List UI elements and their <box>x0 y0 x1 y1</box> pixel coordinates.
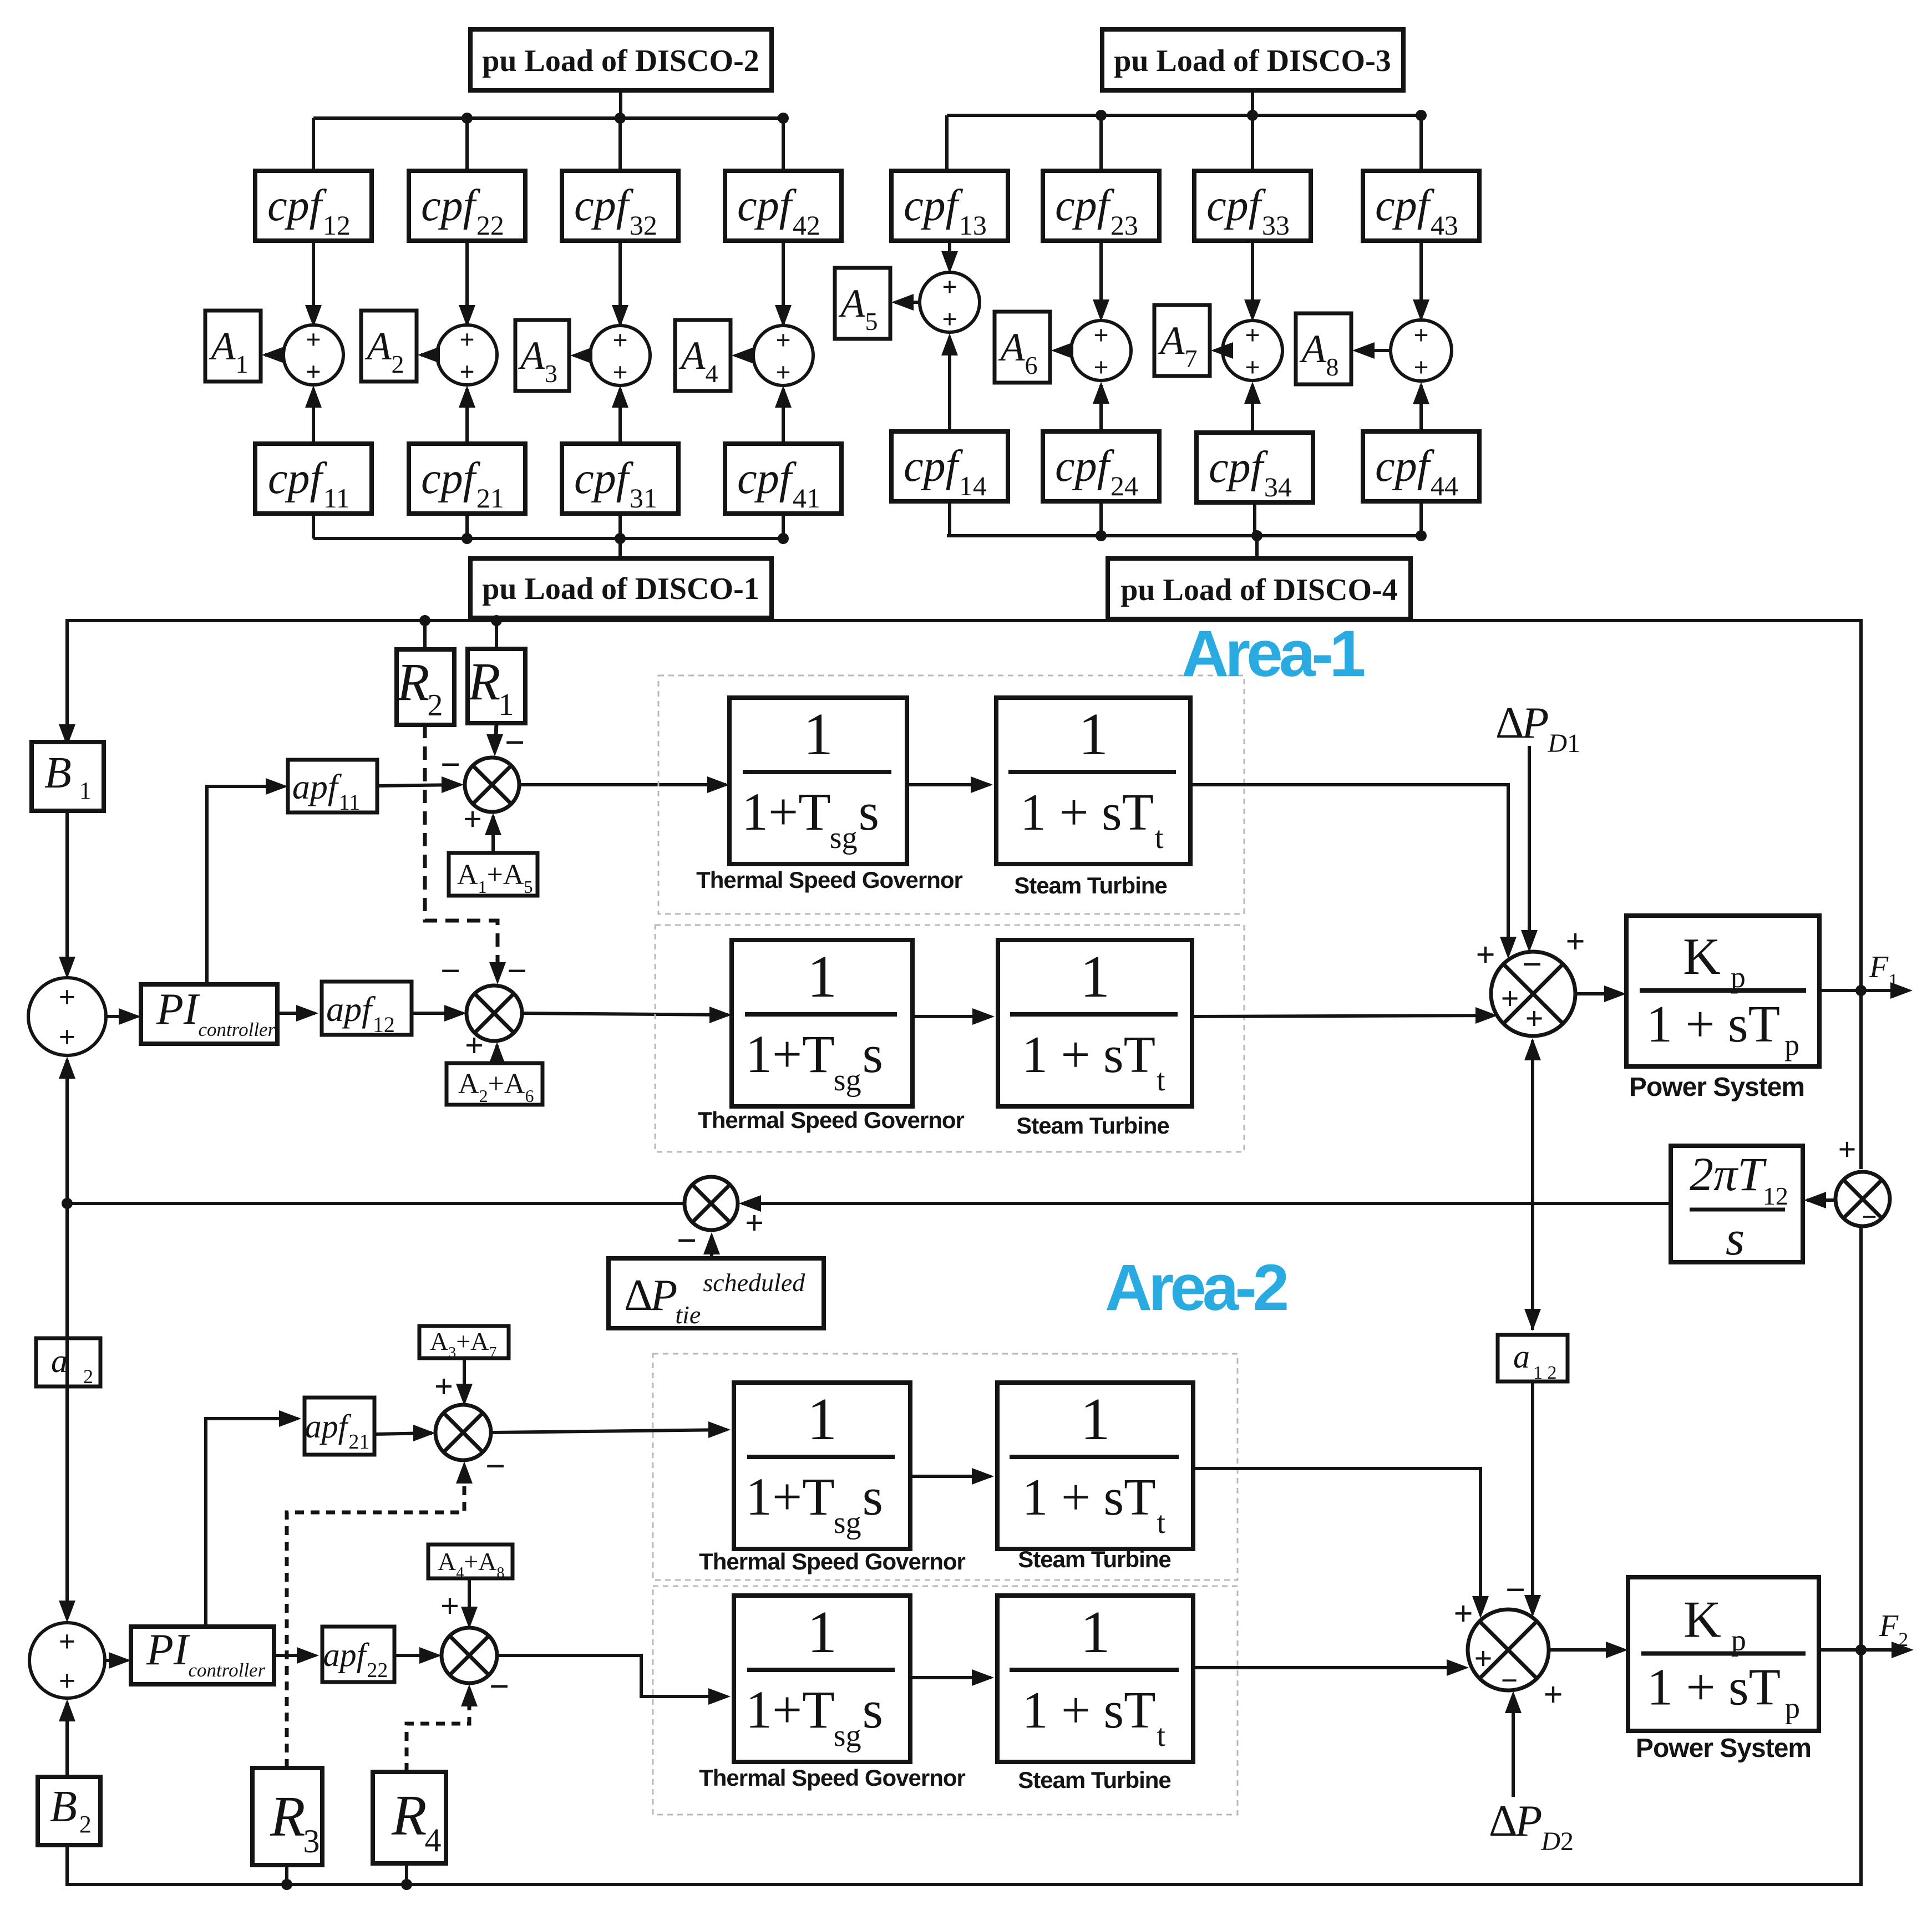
junction dot right top bus col4 <box>1416 110 1427 121</box>
svg-text:+: + <box>440 1588 459 1624</box>
svg-text:+: + <box>459 357 474 387</box>
wire cpf24 to summer A6 <box>1099 385 1103 431</box>
summing junction for A7 <box>1223 321 1282 380</box>
svg-text:−: − <box>440 951 460 990</box>
block cpf32 <box>562 171 678 241</box>
wire A2+A6 to mixer 2 <box>495 1045 499 1063</box>
junction dot R2 tap on top border <box>419 615 430 626</box>
block A4 <box>675 320 731 391</box>
wire tie feedback to ACE summer 1 <box>65 1060 69 1203</box>
wire R3 stub to bottom border <box>285 1865 288 1884</box>
mixer junction governor 2 input <box>466 985 522 1041</box>
wire cpf32 to summer A3 <box>618 241 622 324</box>
wire cpf31 to bottom bus <box>618 514 622 539</box>
summing junction for A3 <box>590 326 650 385</box>
wire mixer 1 to governor 1 <box>519 783 726 786</box>
svg-text:1: 1 <box>803 702 833 768</box>
wire dPD1 to power summer 1 <box>1528 746 1531 948</box>
block steam turbine 3 <box>997 1383 1193 1549</box>
svg-text:−: − <box>505 723 525 762</box>
svg-text:1: 1 <box>1078 702 1108 768</box>
block R2 <box>397 649 454 725</box>
block cpf24 <box>1043 431 1159 501</box>
svg-text:−: − <box>1501 1664 1518 1697</box>
wire top bus to cpf32 <box>618 118 622 171</box>
summing junction ACE area-2 <box>29 1623 105 1698</box>
junction dot R1 tap on top border <box>491 615 502 626</box>
wire ACE summer 2 to PI controller 2 <box>105 1659 128 1662</box>
wire power summer 1 to power system 1 <box>1575 992 1622 995</box>
svg-text:pu Load of DISCO-4: pu Load of DISCO-4 <box>1120 573 1397 607</box>
wire cpf21 to summer A2 <box>465 389 469 444</box>
junction dot F1 <box>1855 985 1867 996</box>
svg-text:+: + <box>745 1205 764 1241</box>
block pu Load of DISCO-2 <box>470 29 772 90</box>
svg-text:+: + <box>1245 321 1260 350</box>
wire R2 droop dashed <box>425 725 498 978</box>
svg-text:Steam Turbine: Steam Turbine <box>1016 1112 1169 1139</box>
wire PI 2 branch to apf21 <box>206 1419 298 1627</box>
block A3 <box>515 320 569 391</box>
wire B2 to ACE summer 2 <box>65 1703 69 1777</box>
wire cpf31 to summer A3 <box>618 389 622 444</box>
wire summer to A4 <box>735 354 753 357</box>
svg-text:1: 1 <box>807 944 837 1010</box>
summing junction power system 2 input <box>1468 1609 1549 1690</box>
svg-text:1: 1 <box>1081 1599 1110 1665</box>
block power system 2 <box>1628 1577 1819 1731</box>
wire right DPM bottom bus <box>947 534 1421 537</box>
block PI controller area-1 <box>141 984 277 1044</box>
wire R4 stub to bottom border <box>405 1863 408 1884</box>
block tie line 2piT12/s <box>1671 1146 1803 1262</box>
wire mixer a2r1 to governor a2r1 <box>491 1430 727 1432</box>
svg-text:Thermal Speed Governor: Thermal Speed Governor <box>699 1548 965 1574</box>
wire summer to A6 <box>1054 349 1071 352</box>
block cpf13 <box>891 171 1008 241</box>
block power system 1 <box>1626 916 1819 1066</box>
wire top bus to cpf22 <box>465 118 469 171</box>
wire power system 2 to F2 <box>1819 1648 1909 1652</box>
block cpf21 <box>409 444 525 514</box>
wire cpf14 to summer A5 <box>948 337 951 431</box>
block a2 <box>36 1338 100 1386</box>
svg-text:1: 1 <box>1080 944 1110 1010</box>
svg-text:Thermal Speed Governor: Thermal Speed Governor <box>699 1765 965 1791</box>
block cpf41 <box>725 444 841 514</box>
wire tie summer to tie block <box>1807 1198 1835 1202</box>
wire cpf34 to bottom bus <box>1253 502 1256 536</box>
svg-text:+: + <box>1245 353 1260 382</box>
wire turbine a2r2 to power summer 2 <box>1193 1666 1464 1669</box>
wire cpf23 to summer A6 <box>1099 241 1103 317</box>
summing junction power system 1 input <box>1491 952 1575 1036</box>
block cpf22 <box>409 171 525 241</box>
svg-text:+: + <box>306 357 321 387</box>
block A2+A6 <box>447 1063 542 1105</box>
junction dot tie feedback left rail <box>62 1198 73 1209</box>
svg-text:−: − <box>677 1221 697 1260</box>
wire governor a2r1 to turbine a2r1 <box>910 1475 991 1478</box>
svg-text:+: + <box>1543 1676 1563 1714</box>
wire right DPM top bus <box>947 114 1421 117</box>
block cpf23 <box>1043 171 1159 241</box>
junction dot top bus col4 <box>778 113 789 124</box>
svg-text:+: + <box>1838 1131 1856 1167</box>
junction dot F2 <box>1855 1644 1867 1655</box>
wire summer to A1 <box>265 353 283 357</box>
wire tie mixer to left rail <box>67 1202 684 1205</box>
svg-text:+: + <box>59 1664 76 1698</box>
block cpf43 <box>1363 171 1479 241</box>
wire top bus to cpf13 <box>945 115 949 171</box>
svg-text:−: − <box>440 745 460 784</box>
wire left rail to a2 and ACE summer 2 <box>65 1203 69 1618</box>
svg-text:+: + <box>434 1368 453 1405</box>
svg-text:+: + <box>1500 981 1519 1017</box>
junction dot bottom bus col4 <box>778 533 789 544</box>
wire left DPM top bus <box>313 116 783 120</box>
mixer junction tie feedback <box>684 1177 738 1230</box>
svg-text:−: − <box>489 1667 509 1706</box>
summing junction for A4 <box>753 326 813 385</box>
wire cpf41 to summer A4 <box>782 389 785 444</box>
block dPtie scheduled <box>608 1258 824 1328</box>
svg-text:+: + <box>1093 321 1108 350</box>
block apf21 <box>305 1398 374 1455</box>
wire dPD2 to power summer 2 <box>1512 1695 1515 1797</box>
block PI controller area-2 <box>131 1627 274 1684</box>
block cpf34 <box>1196 433 1313 502</box>
svg-text:−: − <box>1522 944 1542 984</box>
summing junction for A5 <box>920 272 980 332</box>
svg-text:+: + <box>775 358 790 387</box>
block cpf33 <box>1194 171 1311 241</box>
junction dot right bottom bus col4 <box>1416 530 1427 541</box>
junction dot top bus col3 <box>615 113 626 124</box>
wire cpf12 to summer A1 <box>312 241 315 324</box>
svg-text:Steam Turbine: Steam Turbine <box>1018 1767 1171 1793</box>
svg-text:+: + <box>942 304 957 334</box>
wire cpf21 to bottom bus <box>465 514 469 539</box>
wire cpf14 to bottom bus <box>948 501 951 536</box>
wire PI 1 branch to apf11 <box>207 786 285 984</box>
group box area-2 unit 1 <box>653 1354 1238 1580</box>
wire summer to A7 <box>1214 349 1223 352</box>
wire apf21 to mixer a2r1 <box>374 1433 432 1434</box>
summing junction for A8 <box>1391 320 1452 381</box>
junction dot right top bus col3 <box>1247 110 1258 121</box>
block B2 <box>38 1777 100 1845</box>
wire R1 stub <box>495 621 498 649</box>
svg-text:+: + <box>59 1625 76 1658</box>
svg-text:+: + <box>1525 1000 1543 1037</box>
junction dot R3 tap <box>281 1879 292 1890</box>
block R3 <box>252 1768 322 1865</box>
block A1 <box>205 311 261 382</box>
block cpf14 <box>891 431 1008 501</box>
svg-text:pu Load of DISCO-2: pu Load of DISCO-2 <box>482 44 759 78</box>
wire cpf34 to summer A7 <box>1251 385 1254 431</box>
junction dot right bottom bus col2 <box>1096 530 1107 541</box>
block a12 <box>1498 1335 1568 1381</box>
wire top bus to cpf43 <box>1419 115 1423 171</box>
wire cpf33 to summer A7 <box>1251 241 1254 317</box>
svg-text:pu Load of DISCO-1: pu Load of DISCO-1 <box>482 572 759 606</box>
block B1 <box>32 742 104 811</box>
block steam turbine 4 <box>997 1596 1193 1762</box>
wire summer to A8 <box>1356 349 1391 352</box>
svg-text:−: − <box>507 951 527 990</box>
wire power system 1 to F1 <box>1819 989 1908 992</box>
svg-text:+: + <box>1453 1595 1473 1633</box>
wire cpf11 to bottom bus <box>312 514 315 539</box>
svg-text:Power System: Power System <box>1629 1073 1804 1102</box>
wire tie block output to tie mixer <box>742 1202 1671 1205</box>
wire governor a2r2 to turbine a2r2 <box>910 1676 991 1679</box>
svg-text:−: − <box>485 1446 505 1486</box>
wire R3 droop dashed <box>287 1466 464 1768</box>
svg-text:−: − <box>1505 1570 1525 1609</box>
svg-text:+: + <box>59 981 76 1014</box>
wire turbine row2 output to power summer 1 <box>1192 1015 1493 1017</box>
block A8 <box>1296 313 1351 384</box>
svg-text:pu Load of DISCO-3: pu Load of DISCO-3 <box>1114 44 1391 78</box>
wire DISCO-2 to top bus <box>619 90 622 118</box>
wire cpf24 to bottom bus <box>1099 501 1103 536</box>
wire F1 to tie summer <box>1859 990 1863 1169</box>
svg-text:s: s <box>1726 1212 1745 1266</box>
svg-text:+: + <box>1413 321 1428 350</box>
wire apf12 to mixer 2 <box>412 1012 463 1015</box>
wire summer to A3 <box>574 354 590 357</box>
wire cpf43 to summer A8 <box>1419 241 1423 317</box>
block A2 <box>361 311 417 382</box>
block cpf31 <box>562 444 678 514</box>
wire DISCO-3 to top bus <box>1251 90 1254 115</box>
svg-text:+: + <box>459 325 474 354</box>
svg-text:1 + sTp: 1 + sTp <box>1646 995 1799 1061</box>
block pu Load of DISCO-3 <box>1102 29 1403 90</box>
svg-text:Steam Turbine: Steam Turbine <box>1018 1546 1171 1572</box>
junction dot bottom bus col3 <box>615 533 626 544</box>
junction dot top bus col2 <box>462 113 473 124</box>
junction dot R4 tap <box>401 1879 412 1890</box>
block pu Load of DISCO-1 <box>470 558 772 618</box>
wire cpf13 to summer A5 <box>948 241 951 269</box>
svg-text:Thermal Speed Governor: Thermal Speed Governor <box>696 867 962 893</box>
summing junction for A1 <box>283 325 343 385</box>
wire summer to A5 <box>895 301 920 304</box>
group box area-1 unit 1 <box>658 675 1244 914</box>
wire F2 to tie summer <box>1859 1226 1863 1650</box>
wire apf11 to mixer 1 <box>377 785 460 786</box>
wire cpf41 to bottom bus <box>782 514 785 539</box>
wire power summer 2 to power system 2 <box>1549 1648 1624 1652</box>
svg-text:+: + <box>775 326 790 355</box>
block A3+A7 <box>419 1326 509 1358</box>
wire cpf11 to summer A1 <box>312 389 315 444</box>
wire tie feedback to power summer 1 and a12 <box>1531 1040 1534 1330</box>
wire left DPM bottom bus <box>313 537 783 540</box>
wire bottom bus to DISCO-1 <box>618 539 622 558</box>
junction dot right bottom bus col3 <box>1251 530 1262 541</box>
wire A1+A5 to mixer 1 <box>491 816 495 853</box>
wire dPtie scheduled to tie mixer <box>710 1236 713 1258</box>
block R1 <box>468 649 525 723</box>
svg-text:+: + <box>1475 936 1495 974</box>
block steam turbine 2 <box>998 940 1192 1106</box>
block A4+A8 <box>428 1545 513 1578</box>
wire turbine a2r1 to power summer 2 <box>1193 1469 1480 1614</box>
wire A3+A7 to mixer a2r1 <box>463 1358 466 1401</box>
wire B1 to ACE summer 1 <box>65 811 69 974</box>
mixer junction governor 1 input <box>465 758 519 812</box>
svg-text:+: + <box>1474 1640 1492 1677</box>
block thermal speed governor 1 <box>729 698 907 864</box>
wire top bus to cpf42 <box>782 118 785 171</box>
svg-text:Area-1: Area-1 <box>1181 617 1365 690</box>
wire cpf22 to summer A2 <box>465 241 469 324</box>
svg-text:+: + <box>1565 923 1585 961</box>
mixer junction governor a2 row2 input <box>442 1628 497 1683</box>
block A1+A5 <box>449 853 537 896</box>
block thermal speed governor 2 <box>732 940 912 1106</box>
wire R4 droop dashed <box>407 1689 469 1772</box>
svg-text:+: + <box>612 326 627 355</box>
wire mixer 2 to governor row2 <box>522 1013 728 1015</box>
wire A4+A8 to mixer a2r2 <box>468 1578 471 1624</box>
svg-text:+: + <box>942 272 957 302</box>
group box area-1 unit 2 <box>655 925 1244 1152</box>
block apf12 <box>322 982 412 1035</box>
svg-text:+: + <box>1093 353 1108 382</box>
block thermal speed governor 3 <box>734 1383 910 1549</box>
wire governor 1 to turbine 1 <box>907 783 990 786</box>
wire summer to A2 <box>421 353 437 357</box>
wire top bus to cpf33 <box>1251 115 1254 171</box>
wire top bus to cpf23 <box>1099 115 1103 171</box>
svg-text:1 + sTp: 1 + sTp <box>1647 1659 1800 1725</box>
wire a12 to power summer 2 <box>1531 1381 1534 1613</box>
block A5 <box>835 268 890 339</box>
svg-text:1: 1 <box>807 1386 837 1452</box>
wire PI 1 to apf12 <box>277 1012 315 1015</box>
wire governor 2 to turbine 2 <box>912 1015 991 1018</box>
wire cpf44 to bottom bus <box>1419 501 1423 536</box>
svg-text:1: 1 <box>807 1599 837 1665</box>
wire cpf44 to summer A8 <box>1419 385 1423 431</box>
group box area-2 unit 2 <box>653 1586 1238 1815</box>
summing junction tie-line <box>1835 1172 1890 1226</box>
block cpf42 <box>725 171 841 241</box>
block pu Load of DISCO-4 <box>1108 558 1411 619</box>
wire bottom bus to DISCO-4 <box>1255 536 1259 558</box>
wire ACE summer 1 to PI controller 1 <box>106 1015 138 1018</box>
svg-text:−: − <box>1862 1202 1877 1232</box>
block cpf11 <box>255 444 372 514</box>
svg-text:+: + <box>463 801 482 837</box>
block apf11 <box>288 760 377 812</box>
wire F2 feedback bottom border <box>67 1650 1861 1884</box>
block thermal speed governor 4 <box>734 1596 910 1762</box>
svg-text:+: + <box>59 1020 76 1054</box>
summing junction ACE area-1 <box>28 978 106 1055</box>
svg-text:+: + <box>306 325 321 354</box>
mixer junction governor a2 row1 input <box>435 1405 491 1460</box>
svg-text:+: + <box>1413 353 1428 382</box>
wire R1 droop dashed <box>495 723 496 750</box>
block steam turbine 1 <box>996 698 1190 864</box>
summing junction for A6 <box>1071 321 1131 380</box>
block A7 <box>1154 305 1210 376</box>
svg-text:+: + <box>465 1027 484 1064</box>
svg-text:Power System: Power System <box>1636 1734 1811 1763</box>
wire F1 feedback top border <box>67 621 1861 990</box>
svg-text:1: 1 <box>1081 1386 1110 1452</box>
block A6 <box>995 312 1050 383</box>
wire turbine 1 output to power summer 1 <box>1190 785 1508 954</box>
block R4 <box>373 1772 446 1863</box>
summing junction for A2 <box>437 325 497 385</box>
wire PI 2 to apf22 <box>274 1654 316 1657</box>
wire mixer a2r2 to governor a2r2 <box>497 1655 727 1696</box>
wire apf22 to mixer a2r2 <box>394 1654 438 1657</box>
wire top bus to cpf12 <box>312 118 315 171</box>
svg-text:+: + <box>612 358 627 387</box>
block cpf12 <box>255 171 372 241</box>
wire cpf42 to summer A4 <box>782 241 785 324</box>
svg-text:Thermal Speed Governor: Thermal Speed Governor <box>698 1107 964 1133</box>
block apf22 <box>322 1627 394 1682</box>
svg-text:Steam Turbine: Steam Turbine <box>1014 872 1167 898</box>
wire R2 stub <box>423 621 427 649</box>
block cpf44 <box>1363 431 1479 501</box>
junction dot bottom bus col2 <box>462 533 473 544</box>
junction dot right top bus col2 <box>1096 110 1107 121</box>
svg-text:Area-2: Area-2 <box>1105 1251 1287 1324</box>
